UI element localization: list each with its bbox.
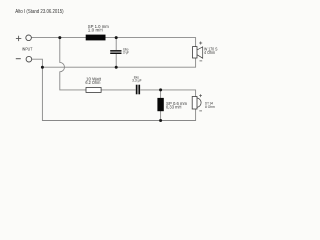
minus sign tweeter <box>199 110 202 112</box>
svg-text:0,33 mH: 0,33 mH <box>166 105 182 110</box>
speaker W 170 S cone <box>197 47 203 58</box>
wire woofer return rail <box>42 58 195 67</box>
junction dot at - input / bottom branch <box>41 66 44 69</box>
junction dot node tweeter top <box>159 88 162 91</box>
junction dot at return rail / C1 <box>115 66 118 69</box>
junction dot at + rail / tweeter branch <box>58 36 61 39</box>
minus sign woofer <box>200 60 203 62</box>
plus sign woofer <box>199 42 202 45</box>
wire capacitor C1 branch lower <box>115 54 117 67</box>
junction dot bottom rail / L2 <box>159 119 162 122</box>
svg-text:10 µF: 10 µF <box>123 51 129 55</box>
terminal - input circle <box>26 56 32 62</box>
wire shunt inductor L2 branch <box>160 90 162 121</box>
speaker DT 94 dome <box>197 98 201 108</box>
svg-text:1.0 mH: 1.0 mH <box>88 28 103 33</box>
terminal + input circle <box>26 35 32 41</box>
svg-text:3,3 µF: 3,3 µF <box>132 79 141 83</box>
wire capacitor C1 branch upper <box>115 38 117 51</box>
capacitor C1 Elko 10 uF plates <box>110 50 121 52</box>
wire capacitor C2 to tweeter <box>140 90 195 97</box>
plus sign input <box>16 36 21 41</box>
svg-text:8 Ohm: 8 Ohm <box>205 104 215 109</box>
wire tweeter branch with hop over return rail <box>60 38 86 90</box>
minus sign input <box>16 58 21 60</box>
wire from - input down and bottom rail to tweeter <box>32 59 196 120</box>
junction dot at + rail / C1 <box>115 36 118 39</box>
resistor R1 6.2 Ohm <box>86 88 101 93</box>
wire resistor to capacitor C2 <box>101 89 136 91</box>
capacitor C2 Elko 3.3 uF plates <box>136 85 138 95</box>
speaker DT 94 tweeter box <box>192 97 197 110</box>
svg-text:Alto I (Stand 23.06.2015): Alto I (Stand 23.06.2015) <box>15 9 64 15</box>
svg-text:6.2 Ohm: 6.2 Ohm <box>85 80 100 85</box>
inductor L1 1.0 mH <box>86 35 106 41</box>
plus sign tweeter <box>199 94 202 97</box>
svg-text:INPUT: INPUT <box>22 47 33 52</box>
svg-text:4 Ohm: 4 Ohm <box>204 50 215 55</box>
wire top rail from + input to woofer <box>31 38 195 47</box>
speaker W 170 S woofer box <box>193 47 198 58</box>
inductor L2 0.33 mH <box>157 98 163 111</box>
